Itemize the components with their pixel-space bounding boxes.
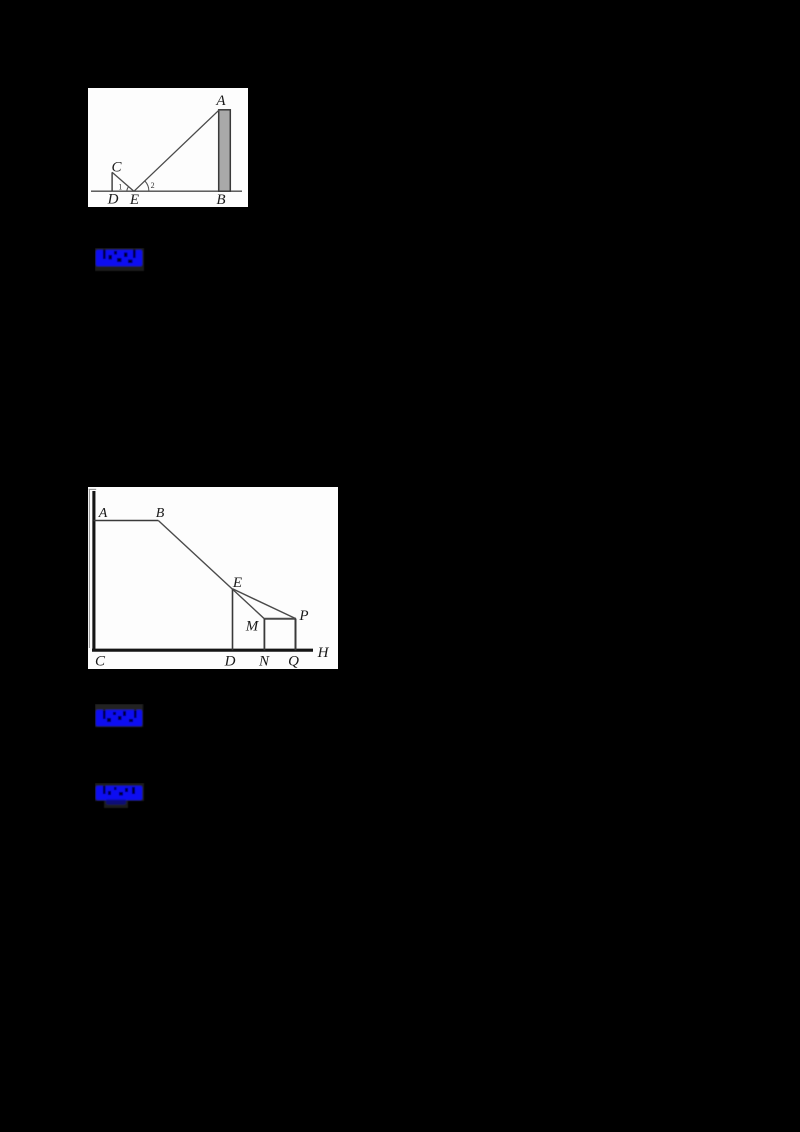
tag 2 blue bracketed text blob	[96, 710, 142, 726]
figure 2 white background	[88, 487, 338, 669]
blue tag 3	[95, 783, 145, 809]
wire E to P	[233, 589, 297, 619]
tag 3 highlight box lower lobe	[104, 801, 128, 808]
wire C to E	[112, 172, 134, 191]
svg-text:C: C	[95, 653, 106, 669]
wire A to B	[94, 520, 159, 522]
square MNQP right side (P to Q)	[295, 619, 297, 650]
figure 1 white background	[88, 88, 248, 207]
wire D to C (small pole)	[111, 172, 113, 191]
square MNQP left side (M to N)	[263, 619, 265, 650]
svg-text:Q: Q	[288, 653, 299, 669]
angle 2 arc at E	[145, 181, 149, 191]
tag 3 blue bracketed text blob	[96, 786, 142, 800]
tag 3 glyph gap marks	[103, 786, 135, 796]
svg-text:D: D	[107, 191, 119, 207]
blue tag 1	[95, 248, 145, 272]
angle 1 arc at E	[127, 187, 129, 192]
tag 3 highlight box	[95, 783, 144, 801]
tag 2 glyph gap marks	[103, 710, 137, 722]
vertical wall C axis (thick)	[92, 491, 95, 652]
svg-text:M: M	[245, 619, 260, 635]
wall top gray cap	[89, 488, 97, 490]
square MNQP top side	[264, 618, 296, 620]
figure 1: pole-and-mirror diagram	[88, 88, 248, 207]
ground line D-E-B	[91, 190, 242, 192]
tag 1 highlight box	[95, 248, 144, 271]
tag 1 blue bracketed text blob	[96, 250, 142, 266]
tag 3 blue descender blob	[106, 799, 126, 805]
svg-text:A: A	[215, 93, 226, 109]
svg-text:E: E	[129, 192, 139, 207]
svg-text:H: H	[317, 645, 330, 661]
svg-text:1: 1	[118, 182, 122, 191]
wire E to A (sight line)	[134, 110, 219, 192]
svg-text:P: P	[298, 608, 308, 624]
svg-text:A: A	[98, 506, 108, 521]
tag 1 glyph gap marks	[103, 250, 136, 263]
wall shadow thin gray line	[88, 490, 90, 649]
svg-text:N: N	[258, 653, 270, 669]
svg-text:2: 2	[151, 181, 155, 190]
svg-text:E: E	[232, 575, 242, 591]
blue tag 2	[95, 704, 145, 728]
wire E to D	[232, 589, 234, 650]
pole AB (shaded rectangle)	[219, 110, 231, 191]
figure 2: slope with square diagram	[88, 487, 338, 669]
ground line C-D-N-Q-H	[92, 649, 313, 652]
svg-text:C: C	[111, 160, 122, 176]
svg-text:D: D	[224, 653, 236, 669]
svg-text:B: B	[156, 506, 165, 521]
tag 2 highlight box	[95, 704, 143, 727]
svg-text:B: B	[216, 192, 225, 207]
wire B through E to M corner	[158, 521, 264, 619]
